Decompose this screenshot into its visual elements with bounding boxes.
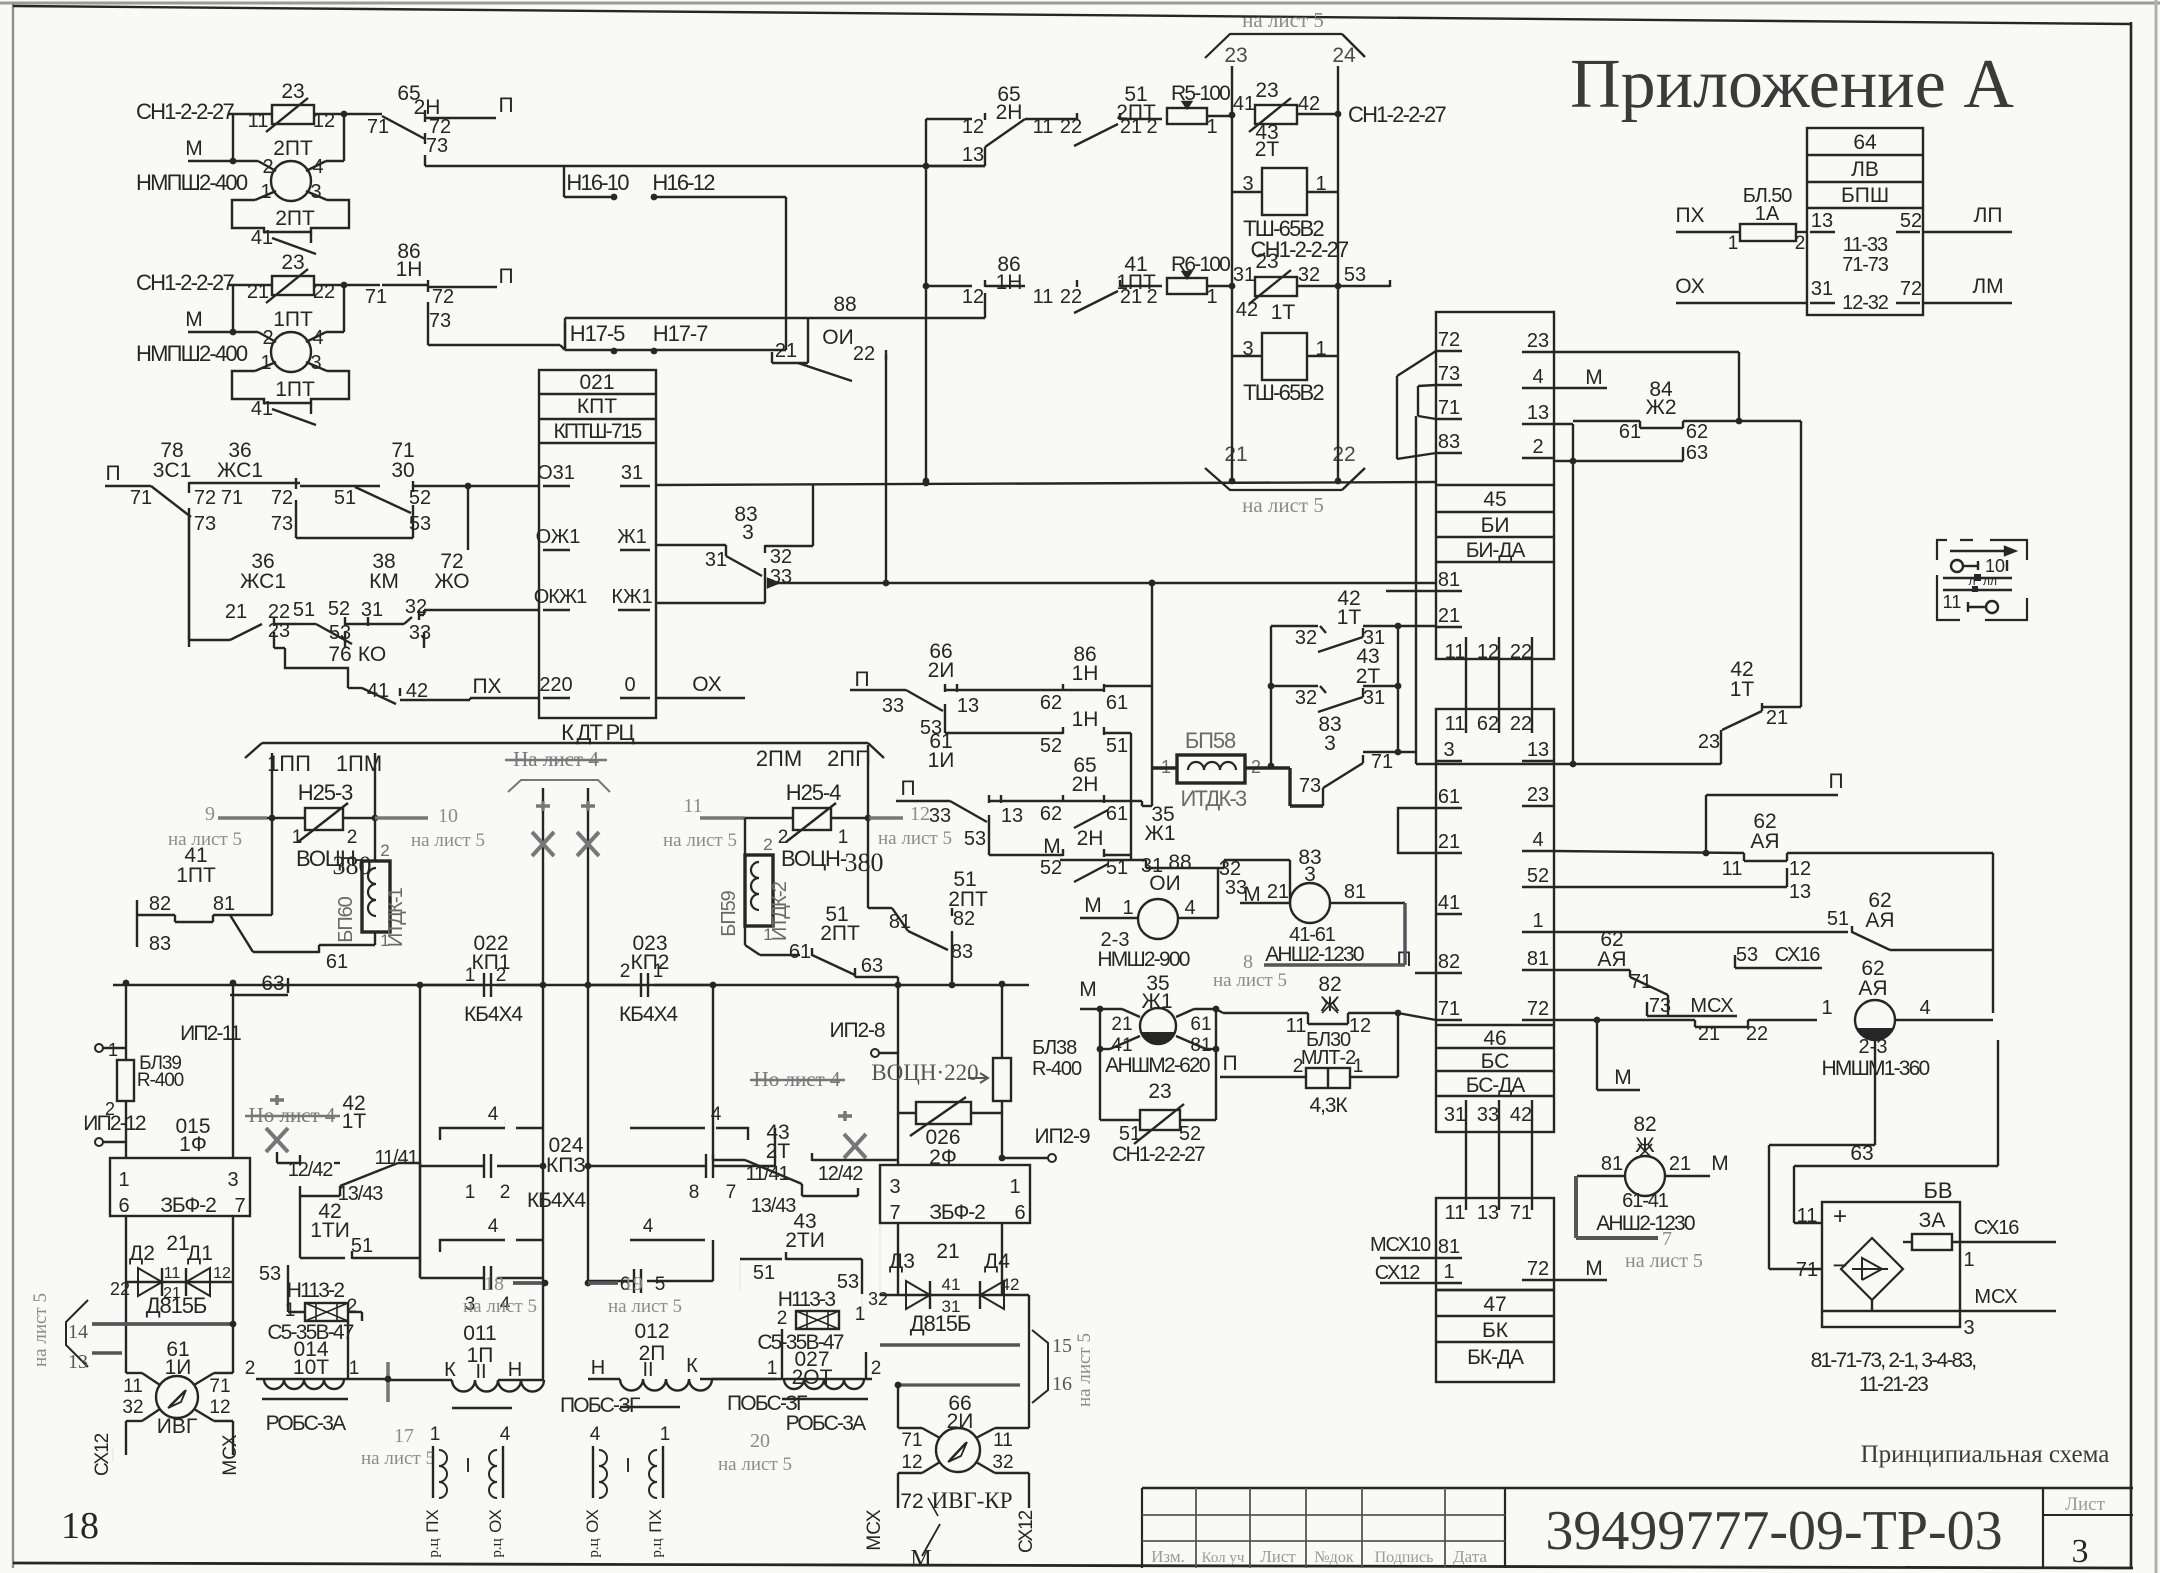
svg-text:62: 62 (1040, 692, 1062, 714)
svg-text:23: 23 (1255, 79, 1278, 102)
wire rail 23 (1231, 66, 1233, 440)
svg-text:СН1-2-2-27: СН1-2-2-27 (1112, 1143, 1205, 1166)
title block table (1142, 1487, 2133, 1490)
svg-text:П: П (1828, 770, 1843, 793)
wire ЗБФ-2 legs (232, 983, 234, 1158)
svg-text:71: 71 (130, 487, 152, 509)
svg-text:ИВГ: ИВГ (157, 1415, 197, 1438)
svg-text:КО: КО (358, 643, 386, 666)
svg-text:1А: 1А (1755, 203, 1780, 225)
svg-text:1Н: 1Н (996, 271, 1023, 294)
svg-text:СХ12: СХ12 (1375, 1262, 1420, 1284)
svg-text:1ПТ: 1ПТ (275, 378, 315, 401)
svg-text:МСХ: МСХ (1974, 1286, 2017, 1308)
wire 88 line (565, 317, 985, 319)
svg-text:71: 71 (1438, 397, 1460, 419)
svg-text:18: 18 (61, 1505, 99, 1547)
svg-text:2: 2 (245, 1358, 256, 1379)
svg-text:7: 7 (726, 1182, 737, 1203)
svg-text:81: 81 (1601, 1153, 1623, 1175)
svg-text:6: 6 (118, 1195, 129, 1217)
svg-text:23: 23 (1527, 784, 1549, 806)
svg-text:12: 12 (962, 116, 984, 138)
svg-text:61: 61 (1190, 1014, 1211, 1035)
svg-text:4: 4 (1532, 829, 1543, 851)
svg-text:2ТИ: 2ТИ (785, 1229, 825, 1252)
svg-text:32: 32 (1295, 627, 1317, 649)
svg-text:11: 11 (1797, 1205, 1818, 1227)
flag 10 на лист 5 (375, 816, 428, 819)
svg-text:1ПП: 1ПП (267, 751, 311, 776)
svg-text:К: К (444, 1359, 456, 1381)
svg-text:1: 1 (380, 931, 389, 950)
wire СН1 feed 2ПТ (228, 113, 272, 115)
svg-text:СН1-2-2-27: СН1-2-2-27 (1348, 102, 1446, 127)
svg-text:2: 2 (1293, 1056, 1304, 1077)
svg-text:РОБС-3А: РОБС-3А (786, 1412, 866, 1435)
svg-text:71: 71 (1510, 1202, 1532, 1224)
svg-text:Ж1: Ж1 (1144, 822, 1175, 845)
wire pin72 МСХ row (1554, 1019, 1695, 1021)
svg-text:21: 21 (1120, 286, 1142, 308)
svg-text:11/41: 11/41 (374, 1147, 418, 1169)
svg-text:52: 52 (1040, 735, 1062, 757)
wires БС to БК (1465, 1122, 1467, 1210)
svg-text:13/43: 13/43 (338, 1183, 384, 1205)
svg-text:73: 73 (271, 513, 293, 535)
svg-text:1: 1 (465, 965, 476, 986)
svg-text:1: 1 (1443, 1261, 1454, 1283)
block КПТШ-715 (539, 370, 656, 718)
svg-text:1Н: 1Н (1072, 708, 1099, 731)
wire О31 into КПТ (413, 485, 539, 487)
svg-text:81: 81 (1527, 948, 1549, 970)
connector block БС 46 (1436, 709, 1554, 1132)
svg-text:БК: БК (1482, 1319, 1509, 1342)
svg-text:61: 61 (326, 951, 348, 973)
svg-text:1: 1 (260, 181, 271, 203)
svg-text:р.ц: р.ц (489, 1538, 505, 1557)
svg-text:11: 11 (1445, 713, 1466, 735)
svg-text:на лист 5: на лист 5 (30, 1293, 51, 1367)
svg-text:R6-100: R6-100 (1171, 253, 1230, 276)
svg-text:41: 41 (251, 227, 273, 249)
svg-text:1: 1 (292, 827, 303, 848)
flag 15 16 на лист 5 (880, 1343, 1020, 1347)
coil bottom loop 1ПТ (232, 371, 349, 403)
svg-text:Приложение А: Приложение А (1570, 46, 2014, 123)
svg-text:71: 71 (1371, 751, 1393, 773)
svg-text:1: 1 (349, 1358, 360, 1379)
svg-text:33: 33 (929, 805, 951, 827)
svg-text:83: 83 (951, 941, 973, 963)
svg-text:АНШ2-1230: АНШ2-1230 (1596, 1212, 1695, 1235)
svg-text:41: 41 (1111, 1035, 1132, 1056)
svg-text:р.ц: р.ц (426, 1538, 442, 1557)
svg-text:52: 52 (1900, 210, 1922, 232)
svg-text:3: 3 (2072, 1533, 2089, 1570)
svg-text:на лист 5: на лист 5 (361, 1448, 435, 1469)
svg-text:ОКЖ1: ОКЖ1 (534, 586, 587, 608)
svg-text:31: 31 (1233, 264, 1255, 286)
svg-text:Н25-4: Н25-4 (786, 780, 841, 805)
wire H17 bus (560, 345, 565, 350)
svg-text:21: 21 (775, 340, 797, 362)
svg-text:КМ: КМ (369, 570, 399, 593)
svg-text:4: 4 (1919, 997, 1930, 1019)
wire column x587 (587, 985, 589, 1281)
svg-text:АНШМ2-620: АНШМ2-620 (1105, 1054, 1210, 1077)
transformer block ТШ-65В2 1Т (1262, 333, 1307, 380)
wire 14 bold (92, 1322, 233, 1326)
svg-text:1: 1 (1206, 286, 1217, 308)
svg-text:на лист 5: на лист 5 (608, 1296, 682, 1317)
svg-text:81-71-73, 2-1, 3-4-83,: 81-71-73, 2-1, 3-4-83, (1811, 1349, 1976, 1372)
svg-text:ЖС1: ЖС1 (217, 459, 263, 482)
svg-text:Д4: Д4 (984, 1250, 1010, 1273)
svg-text:39499777-09-ТР-03: 39499777-09-ТР-03 (1545, 1500, 2002, 1562)
svg-text:11: 11 (1445, 641, 1466, 663)
svg-text:ЛП: ЛП (1974, 204, 2003, 227)
connector block БИ 45 (1436, 312, 1554, 659)
svg-text:Ж1: Ж1 (617, 526, 647, 548)
svg-text:31: 31 (361, 599, 383, 621)
svg-text:51: 51 (334, 487, 356, 509)
svg-text:11: 11 (248, 110, 269, 132)
svg-text:2: 2 (500, 1182, 511, 1203)
svg-text:Н25-3: Н25-3 (298, 780, 353, 805)
svg-text:лл: лл (1983, 574, 1997, 588)
svg-text:КБ4Х4: КБ4Х4 (464, 1003, 523, 1026)
svg-text:72: 72 (900, 1490, 923, 1513)
wire М 1ПТ (188, 331, 258, 333)
svg-text:БП58: БП58 (1185, 728, 1236, 753)
svg-text:71: 71 (1438, 998, 1460, 1020)
svg-text:23: 23 (1148, 1080, 1171, 1103)
svg-text:41: 41 (1233, 93, 1255, 115)
svg-text:БИ: БИ (1481, 514, 1510, 537)
svg-text:6: 6 (1014, 1202, 1025, 1224)
wires into БИ left top (1396, 376, 1398, 459)
svg-text:41: 41 (251, 398, 273, 420)
wire pin4 АЯ row (1554, 851, 1744, 853)
svg-text:Н17-7: Н17-7 (653, 321, 708, 346)
svg-text:БПШ: БПШ (1841, 184, 1889, 207)
svg-text:2: 2 (1795, 233, 1806, 254)
svg-text:КБ4Х4: КБ4Х4 (527, 1189, 586, 1212)
svg-text:53: 53 (329, 622, 351, 644)
wire rail x1152 (1151, 583, 1153, 806)
svg-text:51: 51 (351, 1235, 373, 1257)
svg-text:46: 46 (1483, 1027, 1506, 1050)
svg-text:АЯ: АЯ (1865, 909, 1894, 932)
svg-text:МСХ10: МСХ10 (1370, 1234, 1431, 1256)
svg-text:42: 42 (406, 680, 428, 702)
svg-text:12/42: 12/42 (288, 1159, 334, 1181)
svg-text:11: 11 (1286, 1015, 1307, 1037)
transformer БП59 ИТДК-2 (745, 855, 773, 926)
svg-text:ОЖ1: ОЖ1 (536, 526, 581, 548)
svg-text:ЗА: ЗА (1919, 1209, 1946, 1232)
wire 63 to pin2 (1554, 460, 1683, 462)
svg-text:4: 4 (590, 1424, 601, 1445)
svg-text:61: 61 (1438, 786, 1460, 808)
svg-text:63: 63 (861, 955, 883, 977)
svg-text:КП2: КП2 (630, 951, 669, 974)
svg-text:52: 52 (1179, 1123, 1201, 1145)
svg-text:1: 1 (1532, 910, 1543, 932)
svg-text:Ж2: Ж2 (1645, 396, 1676, 419)
svg-text:ПХ: ПХ (423, 1509, 442, 1533)
wire Ж1 output (656, 544, 726, 546)
wire rail 1416 (1415, 416, 1417, 764)
svg-text:21: 21 (225, 601, 247, 623)
varistor СН1-2-2-27 1ПТ (272, 276, 314, 295)
svg-text:2: 2 (262, 327, 273, 349)
wire rail 1ПМ (374, 753, 376, 861)
svg-text:Кол уч: Кол уч (1202, 1550, 1245, 1566)
wire КЖ1 output (656, 602, 765, 604)
svg-text:22: 22 (1510, 713, 1532, 735)
svg-text:БК-ДА: БК-ДА (1467, 1346, 1524, 1369)
svg-text:БВ: БВ (1923, 1178, 1952, 1203)
svg-text:81: 81 (1438, 569, 1460, 591)
svg-text:1: 1 (1728, 233, 1739, 254)
svg-text:КБ4Х4: КБ4Х4 (619, 1003, 678, 1026)
svg-text:12: 12 (1477, 641, 1499, 663)
svg-text:2И: 2И (928, 659, 955, 682)
wires ИВГ-КР down (897, 1473, 899, 1508)
svg-text:71: 71 (901, 1430, 922, 1451)
svg-text:1: 1 (763, 925, 772, 944)
legend arrow (1950, 550, 2005, 552)
svg-text:Н16-12: Н16-12 (652, 170, 715, 195)
svg-text:Н: Н (591, 1357, 605, 1379)
svg-text:7: 7 (234, 1195, 245, 1217)
svg-text:33: 33 (409, 622, 431, 644)
wire varistor to junction 2ПТ (314, 113, 368, 115)
svg-text:62: 62 (1040, 803, 1062, 825)
svg-text:2: 2 (778, 827, 789, 848)
svg-text:5: 5 (655, 1274, 666, 1295)
svg-text:СН1-2-2-27: СН1-2-2-27 (136, 270, 234, 295)
svg-text:П: П (900, 777, 915, 800)
svg-text:1: 1 (1821, 997, 1832, 1019)
svg-text:ЛВ: ЛВ (1851, 158, 1879, 181)
svg-text:71: 71 (209, 1376, 230, 1397)
wire 63 label line (1794, 1165, 1998, 1167)
svg-text:ЛМ: ЛМ (1972, 275, 2003, 298)
svg-text:БП60: БП60 (335, 896, 357, 942)
svg-text:61: 61 (1106, 803, 1128, 825)
wire 31 output bus (656, 482, 1436, 485)
transformer БП60 ИТДК-1 (362, 861, 390, 932)
svg-text:73: 73 (194, 513, 216, 535)
svg-text:1: 1 (1009, 1176, 1020, 1198)
svg-text:4: 4 (1532, 366, 1543, 388)
svg-text:2: 2 (871, 1358, 882, 1379)
svg-text:Лист: Лист (2065, 1494, 2105, 1515)
svg-text:4: 4 (488, 1104, 499, 1125)
svg-text:на лист 5: на лист 5 (1625, 1250, 1703, 1272)
svg-text:21: 21 (1111, 1014, 1132, 1035)
svg-text:2Т: 2Т (1356, 665, 1381, 688)
svg-text:СХ16: СХ16 (1775, 944, 1820, 966)
wire БИ 81 stub (1386, 590, 1436, 592)
svg-text:31: 31 (1363, 687, 1385, 709)
svg-text:4: 4 (488, 1216, 499, 1237)
svg-text:12: 12 (910, 803, 930, 825)
svg-text:БС: БС (1481, 1050, 1510, 1073)
connector block БК 47 (1436, 1198, 1554, 1382)
svg-text:11/41: 11/41 (745, 1163, 789, 1185)
svg-text:12/42: 12/42 (818, 1163, 864, 1185)
svg-text:11-33: 11-33 (1843, 234, 1888, 256)
contact 12/42 11/41 13/43 left (277, 1162, 300, 1164)
svg-text:Изм.: Изм. (1151, 1547, 1185, 1566)
svg-text:1ТИ: 1ТИ (310, 1219, 350, 1242)
svg-text:22: 22 (1510, 641, 1532, 663)
svg-text:32: 32 (992, 1452, 1013, 1473)
svg-text:МСХ: МСХ (864, 1509, 885, 1550)
svg-text:33: 33 (882, 695, 904, 717)
svg-text:88: 88 (1168, 851, 1191, 874)
svg-text:17: 17 (394, 1425, 414, 1447)
svg-text:71-73: 71-73 (1842, 254, 1889, 276)
svg-text:М: М (1043, 835, 1061, 858)
svg-text:Подпись: Подпись (1375, 1549, 1434, 1566)
svg-text:73: 73 (426, 135, 448, 157)
svg-text:71: 71 (221, 487, 243, 509)
svg-text:1: 1 (118, 1169, 129, 1191)
svg-text:МСХ: МСХ (1690, 995, 1733, 1017)
svg-text:П: П (498, 265, 513, 288)
svg-text:21: 21 (1267, 881, 1289, 903)
svg-text:21: 21 (1438, 831, 1460, 853)
svg-text:12: 12 (1789, 858, 1811, 880)
svg-text:13: 13 (1527, 402, 1549, 424)
wire 73 3С1 down (188, 517, 190, 647)
svg-text:ЖО: ЖО (434, 570, 469, 593)
svg-text:на лист 5: на лист 5 (1074, 1333, 1095, 1407)
cross на column x898 area (838, 1111, 852, 1121)
svg-text:М: М (185, 137, 203, 160)
svg-text:I: I (465, 1455, 471, 1477)
svg-text:62: 62 (1686, 421, 1708, 443)
svg-text:М: М (185, 308, 203, 331)
wire РОБС2 left leg to ПОБС2 (607, 1395, 609, 1402)
svg-text:76: 76 (328, 643, 351, 666)
svg-text:1Т: 1Т (1337, 606, 1362, 629)
wires ИВГ down (125, 1421, 127, 1455)
svg-text:53: 53 (837, 1271, 859, 1293)
svg-text:Лист: Лист (1260, 1547, 1296, 1566)
svg-text:19: 19 (623, 1273, 643, 1295)
svg-text:1ПТ: 1ПТ (176, 864, 216, 887)
svg-text:72: 72 (1438, 329, 1460, 351)
wire thick АНШ2 to на лист 5 (1574, 1176, 1578, 1238)
svg-text:2: 2 (620, 961, 631, 982)
svg-text:ОХ: ОХ (692, 673, 721, 696)
svg-text:71: 71 (1796, 1259, 1818, 1281)
svg-text:П: П (498, 94, 513, 117)
svg-text:ОХ: ОХ (583, 1509, 602, 1533)
wire 1ПП corner to contact (230, 914, 272, 916)
svg-text:14: 14 (68, 1321, 88, 1343)
bridge diamond (1841, 1238, 1903, 1300)
svg-text:МЛТ-2: МЛТ-2 (1301, 1047, 1356, 1069)
svg-text:21: 21 (1766, 707, 1788, 729)
svg-text:1: 1 (1206, 116, 1217, 138)
svg-text:2: 2 (262, 156, 273, 178)
svg-text:20: 20 (750, 1430, 770, 1452)
svg-text:31: 31 (1811, 278, 1833, 300)
svg-text:72: 72 (194, 487, 216, 509)
svg-text:р.ц: р.ц (586, 1538, 602, 1557)
svg-text:24: 24 (1332, 44, 1356, 67)
svg-text:21: 21 (1669, 1153, 1691, 1175)
svg-text:11: 11 (1033, 286, 1054, 308)
wire М 2ПТ (188, 160, 258, 162)
svg-text:1Ф: 1Ф (179, 1133, 207, 1156)
flag 18 на лист 5 (513, 1281, 545, 1285)
svg-text:83: 83 (1438, 431, 1460, 453)
svg-text:1И: 1И (928, 749, 955, 772)
svg-text:021: 021 (579, 371, 614, 394)
svg-text:R5-100: R5-100 (1171, 82, 1230, 105)
svg-text:4,3К: 4,3К (1309, 1094, 1348, 1117)
svg-text:ВОЦН·220: ВОЦН·220 (871, 1060, 978, 1085)
ИВГ arrow symbol (168, 1390, 186, 1408)
svg-text:3: 3 (889, 1176, 900, 1198)
svg-text:ПХ: ПХ (472, 675, 501, 698)
svg-text:1: 1 (465, 1182, 476, 1203)
wire vertical x1801 (1800, 421, 1802, 707)
svg-text:72: 72 (1527, 998, 1549, 1020)
svg-text:2ПТ: 2ПТ (275, 207, 315, 230)
svg-text:Д3: Д3 (889, 1250, 915, 1273)
svg-text:41: 41 (305, 936, 306, 937)
svg-text:21: 21 (936, 1240, 959, 1263)
svg-text:52: 52 (328, 598, 350, 620)
svg-text:на лист 5: на лист 5 (663, 830, 737, 851)
svg-text:3: 3 (310, 181, 321, 203)
svg-text:ОИ: ОИ (822, 326, 853, 349)
svg-text:11: 11 (1033, 116, 1054, 138)
svg-text:13: 13 (1811, 210, 1833, 232)
svg-text:ПХ: ПХ (1675, 204, 1704, 227)
svg-text:42: 42 (1510, 1104, 1532, 1126)
wire БП58 output bold (1245, 766, 1290, 769)
svg-text:83: 83 (149, 933, 171, 955)
svg-text:32: 32 (122, 1397, 143, 1418)
flag 19 на лист 5 (585, 1280, 592, 1287)
svg-text:61: 61 (1619, 421, 1641, 443)
wire 73 lower (427, 302, 429, 345)
svg-text:ИП2-12: ИП2-12 (83, 1112, 146, 1135)
svg-text:КПЗ: КПЗ (546, 1154, 586, 1177)
wire rail 1ПП (271, 753, 273, 915)
svg-text:1ПТ: 1ПТ (273, 308, 313, 331)
svg-text:РОБС-3А: РОБС-3А (266, 1412, 346, 1435)
svg-text:63: 63 (1686, 442, 1708, 464)
svg-text:2Т: 2Т (1255, 138, 1280, 161)
svg-text:22: 22 (1060, 286, 1082, 308)
svg-text:II: II (642, 1359, 653, 1381)
svg-text:СН1-2-2-27: СН1-2-2-27 (136, 99, 234, 124)
svg-text:ОХ: ОХ (486, 1509, 505, 1533)
svg-text:23: 23 (1698, 731, 1720, 753)
